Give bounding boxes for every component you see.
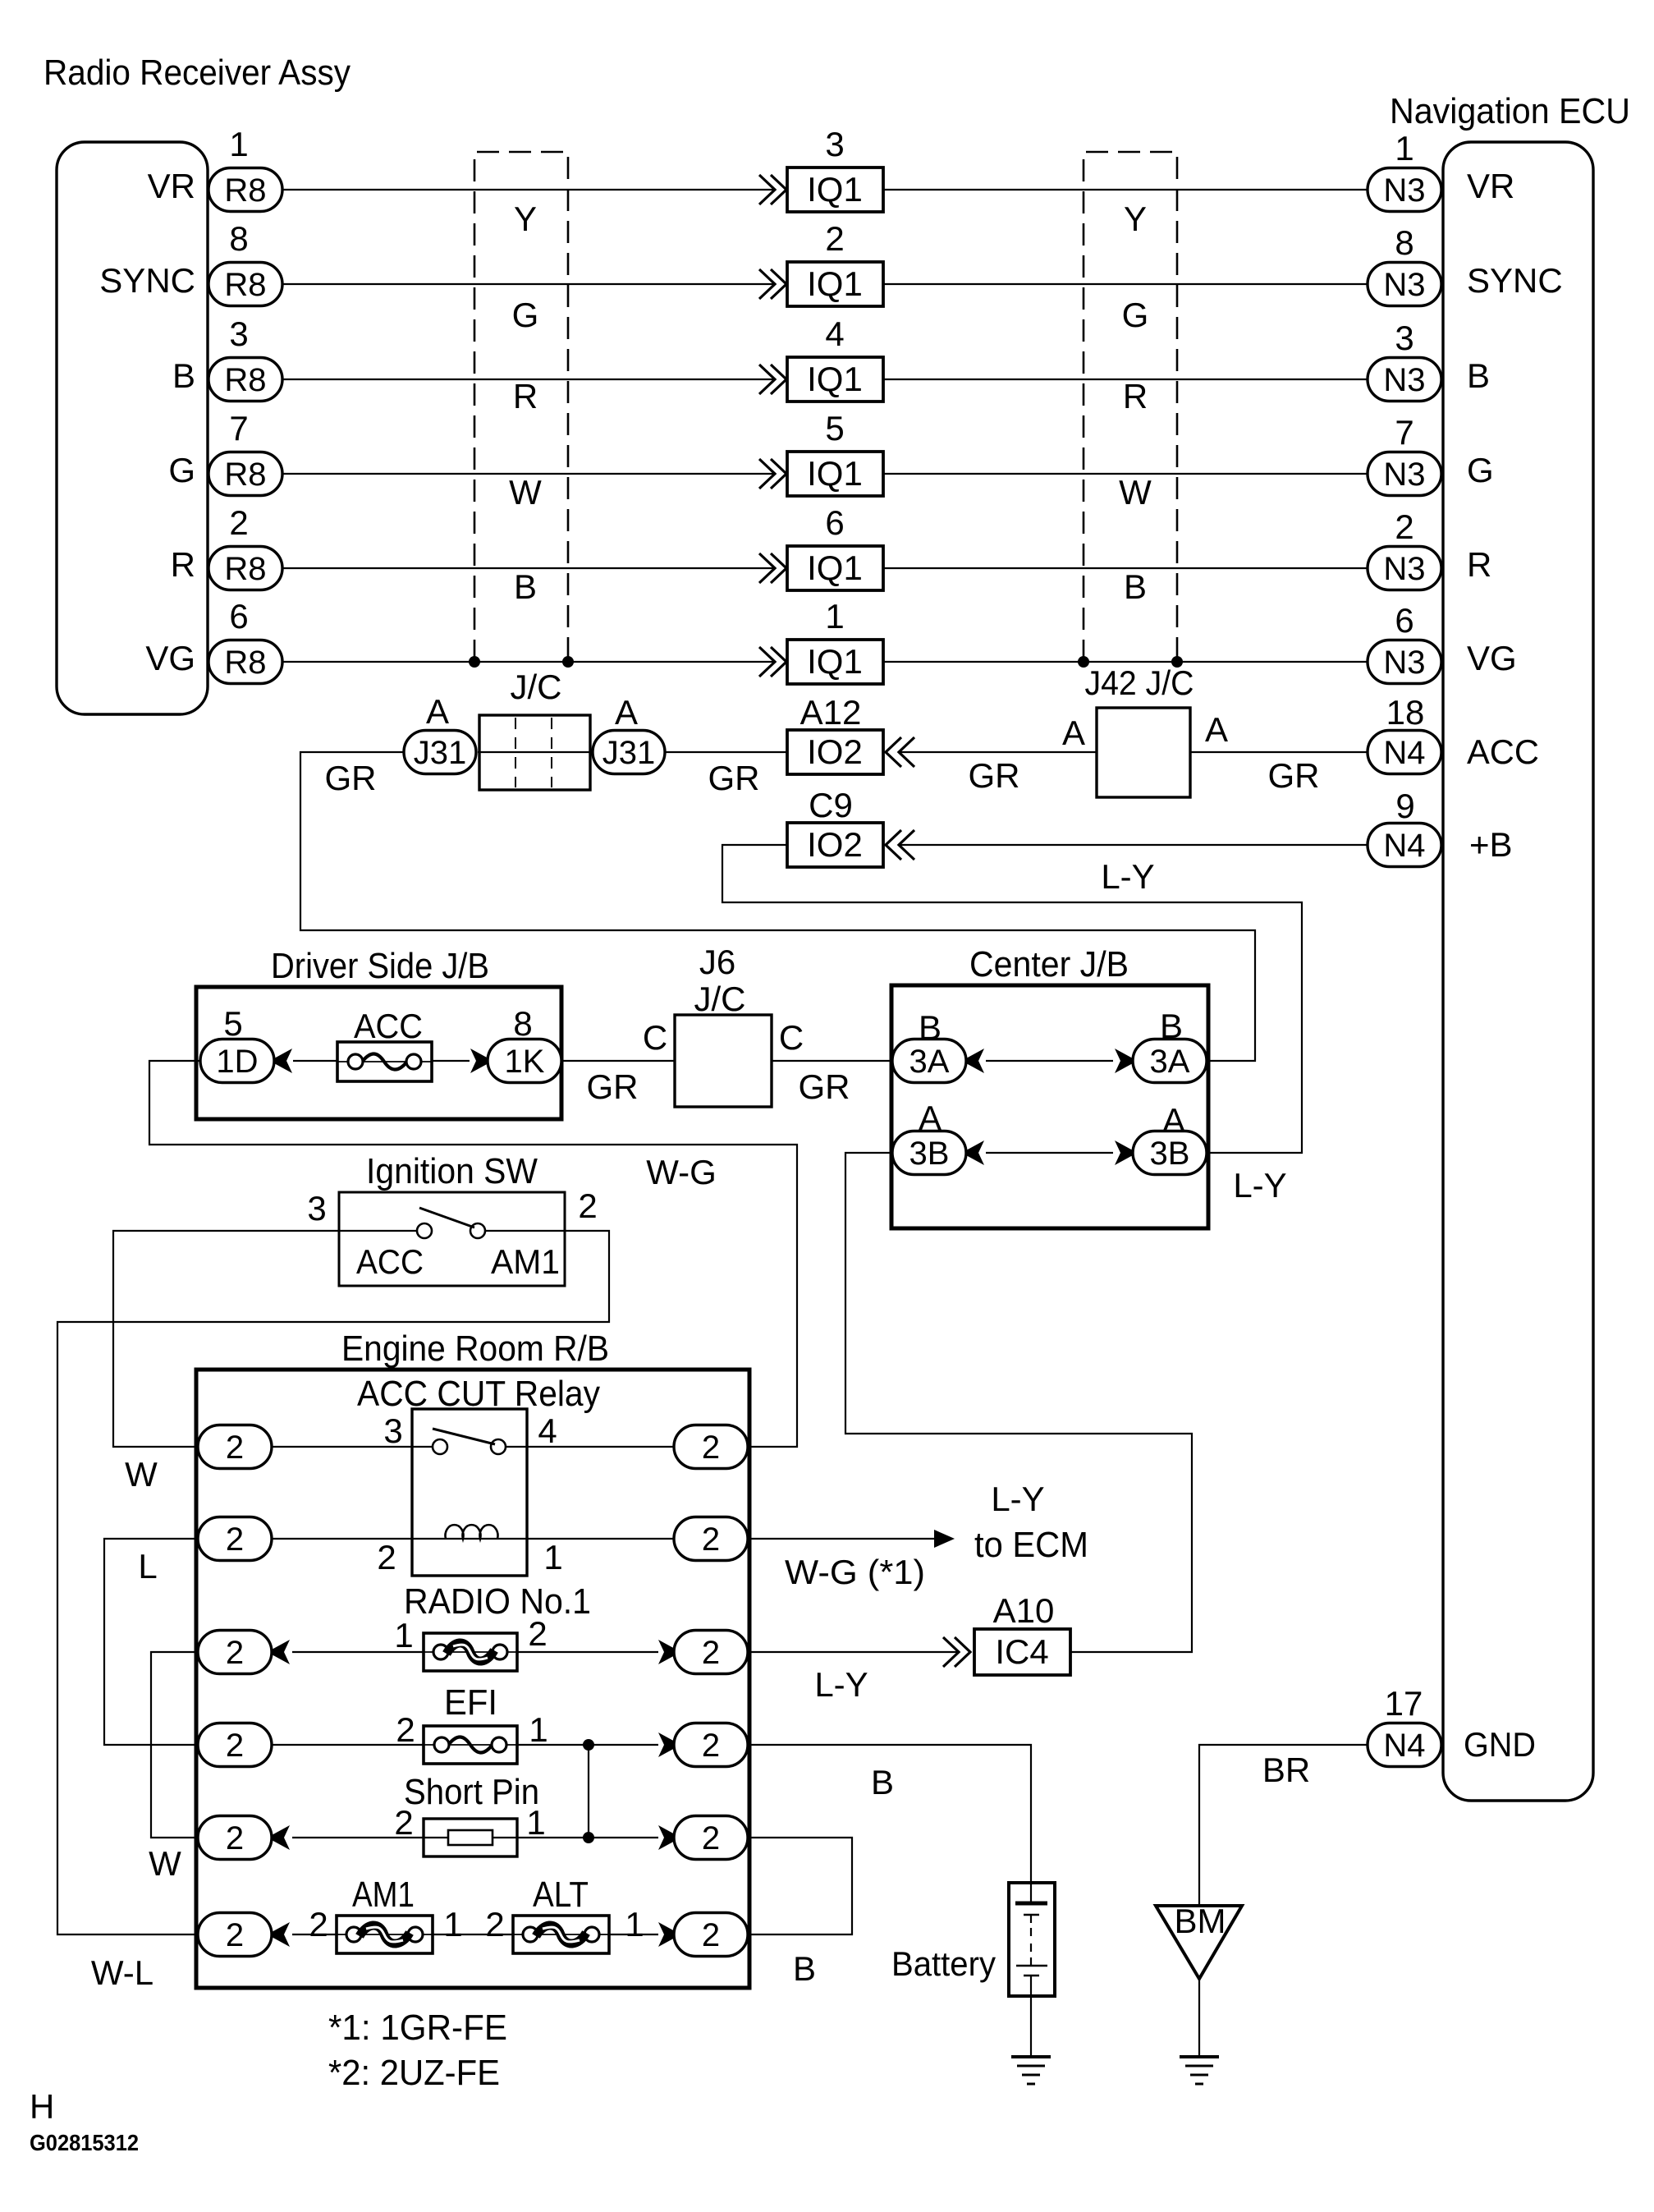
svg-text:J6: J6 bbox=[699, 943, 735, 981]
svg-text:2: 2 bbox=[702, 1917, 720, 1953]
wire L: coil row to EFI row bbox=[104, 1539, 198, 1745]
svg-text:1: 1 bbox=[526, 1803, 545, 1842]
svg-text:H: H bbox=[30, 2087, 54, 2126]
wire EFI row left segment bbox=[272, 1744, 424, 1746]
svg-text:2: 2 bbox=[1395, 507, 1413, 546]
wire B IQ1 to N3 bbox=[883, 379, 1368, 380]
connector 2 (AM1 row right) bbox=[674, 1913, 748, 1957]
svg-text:R8: R8 bbox=[224, 267, 266, 303]
svg-text:2: 2 bbox=[578, 1186, 597, 1225]
connector N3 pin 1 bbox=[1368, 168, 1441, 212]
svg-text:W: W bbox=[1119, 473, 1152, 512]
svg-text:L-Y: L-Y bbox=[1101, 857, 1154, 896]
svg-text:8: 8 bbox=[229, 219, 248, 258]
svg-text:W-G (*1): W-G (*1) bbox=[785, 1553, 925, 1591]
wire B: Short Pin row to AM1 row bbox=[748, 1838, 852, 1934]
connector 3A left bbox=[892, 1039, 966, 1083]
connector N3 pin 7 bbox=[1368, 452, 1441, 496]
svg-text:R8: R8 bbox=[224, 172, 266, 209]
connector 2 (Short Pin row left) bbox=[198, 1816, 272, 1860]
svg-text:J42 J/C: J42 J/C bbox=[1085, 663, 1194, 702]
svg-text:W-G: W-G bbox=[646, 1153, 717, 1191]
wire Short Pin row left segment bbox=[292, 1837, 424, 1838]
svg-text:IO2: IO2 bbox=[807, 732, 863, 771]
wire to ECM bbox=[748, 1538, 944, 1540]
connector arrow into Short Pin row left bbox=[272, 1825, 290, 1850]
svg-text:EFI: EFI bbox=[444, 1682, 497, 1723]
svg-text:1: 1 bbox=[529, 1710, 548, 1749]
svg-text:A10: A10 bbox=[993, 1591, 1055, 1630]
connector 2 (relay row2 left) bbox=[198, 1517, 272, 1561]
junction box J/C bbox=[479, 715, 590, 790]
svg-text:2: 2 bbox=[396, 1710, 415, 1749]
svg-text:8: 8 bbox=[1395, 223, 1413, 262]
svg-text:5: 5 bbox=[223, 1004, 242, 1043]
svg-text:1: 1 bbox=[443, 1905, 462, 1944]
svg-text:Short Pin: Short Pin bbox=[404, 1772, 539, 1812]
svg-text:3: 3 bbox=[229, 314, 248, 353]
connector 2 (RADIO row left) bbox=[198, 1631, 272, 1674]
svg-text:VR: VR bbox=[148, 167, 195, 205]
junction connector J31 right bbox=[593, 731, 665, 774]
svg-text:Y: Y bbox=[1124, 200, 1147, 238]
connector R8 pin 8 bbox=[208, 263, 282, 306]
wire relay switch row left bbox=[272, 1446, 433, 1448]
svg-text:Engine Room R/B: Engine Room R/B bbox=[341, 1329, 609, 1369]
svg-text:N3: N3 bbox=[1383, 645, 1425, 681]
connector 2 (relay row1 left) bbox=[198, 1425, 272, 1469]
svg-text:IQ1: IQ1 bbox=[807, 170, 863, 209]
connector 3B right bbox=[1133, 1131, 1207, 1175]
junction box J42 J/C bbox=[1097, 708, 1190, 797]
svg-text:R8: R8 bbox=[224, 551, 266, 587]
wire relay coil row bbox=[272, 1538, 674, 1540]
svg-text:J/C: J/C bbox=[694, 980, 746, 1018]
svg-text:2: 2 bbox=[702, 1820, 720, 1856]
wire ALT to right connector bbox=[609, 1934, 658, 1935]
svg-text:6: 6 bbox=[229, 597, 248, 636]
Navigation ECU box bbox=[1443, 142, 1593, 1801]
wire W: RADIO row to Short Pin row bbox=[151, 1652, 198, 1838]
connector N3 pin 3 bbox=[1368, 358, 1441, 402]
svg-text:1: 1 bbox=[625, 1905, 644, 1944]
fuse RADIO No.1 bbox=[424, 1633, 517, 1671]
svg-text:RADIO No.1: RADIO No.1 bbox=[404, 1581, 591, 1622]
svg-text:GR: GR bbox=[969, 756, 1020, 795]
wire R R8 to IQ1 bbox=[282, 567, 774, 569]
svg-text:2: 2 bbox=[702, 1635, 720, 1671]
guide arrow into IC4 bbox=[943, 1637, 970, 1667]
svg-text:N4: N4 bbox=[1383, 828, 1425, 864]
svg-text:1: 1 bbox=[1395, 129, 1413, 168]
svg-text:2: 2 bbox=[226, 1728, 244, 1764]
Radio Receiver Assy box bbox=[57, 142, 208, 714]
battery cell bbox=[1009, 1883, 1055, 1996]
connector arrow into EFI row right bbox=[658, 1732, 676, 1757]
junction dot Short Pin row bbox=[583, 1832, 594, 1843]
junction box J6 J/C bbox=[675, 1015, 772, 1107]
svg-text:N3: N3 bbox=[1383, 172, 1425, 209]
svg-text:ACC: ACC bbox=[356, 1242, 424, 1281]
short pin component bbox=[424, 1819, 517, 1856]
guide arrow into IQ1 bbox=[759, 459, 786, 489]
svg-text:IQ1: IQ1 bbox=[807, 264, 863, 303]
connector arrow into AM1 row left bbox=[272, 1922, 290, 1947]
svg-text:B: B bbox=[793, 1949, 816, 1988]
svg-text:2: 2 bbox=[226, 1635, 244, 1671]
connector arrow into 3A right bbox=[1115, 1049, 1133, 1073]
connector arrow into 3B right bbox=[1115, 1140, 1133, 1165]
svg-text:W: W bbox=[125, 1455, 158, 1494]
svg-text:2: 2 bbox=[394, 1803, 413, 1842]
ACC CUT relay box bbox=[412, 1409, 527, 1576]
svg-text:IQ1: IQ1 bbox=[807, 642, 863, 681]
svg-text:2: 2 bbox=[702, 1521, 720, 1558]
connector R8 pin 1 bbox=[208, 168, 282, 212]
guide arrow into IQ1 bbox=[759, 365, 786, 394]
svg-text:L-Y: L-Y bbox=[814, 1665, 868, 1704]
junction dot shield left A bbox=[469, 656, 480, 668]
svg-text:B: B bbox=[1467, 356, 1490, 395]
svg-text:N3: N3 bbox=[1383, 551, 1425, 587]
svg-text:3: 3 bbox=[307, 1189, 326, 1228]
svg-text:2: 2 bbox=[226, 1521, 244, 1558]
svg-text:J31: J31 bbox=[602, 735, 656, 771]
svg-text:C: C bbox=[643, 1018, 667, 1057]
connector 1K pin 8 bbox=[488, 1039, 561, 1083]
splice IQ1 pin 4 bbox=[787, 357, 883, 402]
svg-text:2: 2 bbox=[377, 1538, 396, 1576]
connector R8 pin 3 bbox=[208, 358, 282, 402]
junction dot shield left B bbox=[562, 656, 574, 668]
wire BR: N4 GND to BM bbox=[1199, 1745, 1368, 1906]
svg-text:2: 2 bbox=[226, 1820, 244, 1856]
svg-text:Ignition SW: Ignition SW bbox=[366, 1151, 538, 1191]
connector N4 pin 9 bbox=[1368, 824, 1441, 867]
svg-text:18: 18 bbox=[1386, 693, 1425, 732]
svg-text:2: 2 bbox=[309, 1905, 328, 1944]
svg-text:1D: 1D bbox=[216, 1044, 258, 1080]
relay switch contacts bbox=[433, 1429, 506, 1454]
svg-text:AM1: AM1 bbox=[491, 1242, 560, 1281]
svg-text:C: C bbox=[779, 1018, 804, 1057]
svg-text:J31: J31 bbox=[414, 735, 467, 771]
svg-text:ALT: ALT bbox=[533, 1875, 589, 1915]
guide arrow into IQ1 bbox=[759, 175, 786, 204]
svg-text:G02815312: G02815312 bbox=[30, 2130, 139, 2155]
svg-text:1: 1 bbox=[825, 597, 844, 636]
svg-text:2: 2 bbox=[229, 503, 248, 542]
wire VG IQ1 to N3 bbox=[883, 661, 1368, 663]
svg-text:Driver Side J/B: Driver Side J/B bbox=[271, 946, 489, 986]
wire W: ignition pin3 to relay pin3 row bbox=[113, 1231, 339, 1447]
junction dot shield right B bbox=[1171, 656, 1183, 668]
svg-text:J/C: J/C bbox=[511, 668, 562, 706]
ground (battery) bbox=[1011, 2057, 1051, 2084]
connector N3 pin 6 bbox=[1368, 640, 1441, 684]
wire VG R8 to IQ1 bbox=[282, 661, 774, 663]
svg-text:VR: VR bbox=[1467, 167, 1514, 205]
guide arrow into IQ1 bbox=[759, 553, 786, 583]
wire GR: J31 through J/C bbox=[478, 751, 787, 753]
svg-text:W-L: W-L bbox=[91, 1953, 153, 1992]
splice IQ1 pin 6 bbox=[787, 546, 883, 590]
junction connector J31 left bbox=[404, 731, 476, 774]
svg-text:Battery: Battery bbox=[891, 1944, 996, 1983]
ignition switch contacts bbox=[339, 1208, 565, 1238]
svg-text:BM: BM bbox=[1175, 1902, 1226, 1940]
svg-text:N3: N3 bbox=[1383, 457, 1425, 493]
connector 2 (RADIO row right) bbox=[674, 1631, 748, 1674]
Driver Side J/B box bbox=[196, 987, 561, 1119]
svg-text:N4: N4 bbox=[1383, 735, 1425, 771]
svg-text:AM1: AM1 bbox=[352, 1875, 415, 1915]
splice IO2 A12 bbox=[787, 730, 883, 774]
svg-text:IQ1: IQ1 bbox=[807, 454, 863, 493]
svg-text:7: 7 bbox=[1395, 413, 1413, 452]
svg-text:1: 1 bbox=[229, 125, 248, 163]
svg-text:G: G bbox=[1122, 296, 1149, 334]
wire RADIO row right segment bbox=[517, 1651, 658, 1653]
svg-text:B: B bbox=[871, 1763, 894, 1801]
wire B R8 to IQ1 bbox=[282, 379, 774, 380]
svg-text:2: 2 bbox=[702, 1430, 720, 1466]
connector 2 (EFI row right) bbox=[674, 1723, 748, 1767]
wire SYNC IQ1 to N3 bbox=[883, 283, 1368, 285]
connector R8 pin 6 bbox=[208, 640, 282, 684]
svg-text:A: A bbox=[1062, 714, 1085, 752]
connector R8 pin 7 bbox=[208, 452, 282, 496]
connector 2 (EFI row left) bbox=[198, 1723, 272, 1767]
svg-text:6: 6 bbox=[825, 503, 844, 542]
wire EFI to Short Pin junction bbox=[588, 1745, 589, 1838]
svg-text:Radio Receiver Assy: Radio Receiver Assy bbox=[44, 53, 351, 93]
connector 2 (Short Pin row right) bbox=[674, 1816, 748, 1860]
connector arrow into 1D bbox=[274, 1049, 292, 1073]
connector arrow into AM1 row right bbox=[658, 1922, 676, 1947]
connector N4 pin 18 bbox=[1368, 731, 1441, 774]
svg-text:R8: R8 bbox=[224, 645, 266, 681]
svg-text:GR: GR bbox=[1268, 756, 1320, 795]
svg-text:GND: GND bbox=[1464, 1725, 1536, 1764]
wire GR: J31-left to corner x366 bbox=[300, 752, 1255, 1061]
guide arrow into IQ1 bbox=[759, 647, 786, 677]
svg-text:B: B bbox=[514, 567, 537, 606]
connector 3A right bbox=[1133, 1039, 1207, 1083]
svg-text:2: 2 bbox=[825, 219, 844, 258]
wire AM1 row left segment bbox=[292, 1934, 337, 1935]
connector R8 pin 2 bbox=[208, 547, 282, 590]
svg-text:IO2: IO2 bbox=[807, 825, 863, 864]
svg-text:W: W bbox=[509, 473, 542, 512]
svg-text:R: R bbox=[1123, 377, 1148, 415]
fuse AM1 bbox=[337, 1916, 433, 1953]
wire GR: J6 to Center J/B 3A bbox=[772, 1060, 892, 1062]
connector 3B left bbox=[892, 1131, 966, 1175]
svg-text:Navigation ECU: Navigation ECU bbox=[1390, 91, 1630, 131]
wire W-L: ignition pin2 to AM1 fuse row bbox=[57, 1231, 609, 1934]
guide arrow out of IO2 C9 bbox=[886, 830, 914, 860]
svg-text:3: 3 bbox=[825, 125, 844, 163]
wire GR: J42 to N4 bbox=[1190, 751, 1368, 753]
wire GR: 1K to J6 bbox=[561, 1060, 675, 1062]
fuse ACC bbox=[337, 1042, 432, 1081]
shield dashed outline left bbox=[474, 152, 568, 662]
guide arrow into IQ1 bbox=[759, 269, 786, 299]
wire RADIO row left segment bbox=[292, 1651, 424, 1653]
splice IQ1 pin 1 bbox=[787, 640, 883, 684]
svg-text:2: 2 bbox=[702, 1728, 720, 1764]
wire VR R8 to IQ1 bbox=[282, 189, 774, 190]
svg-text:B: B bbox=[172, 356, 195, 395]
svg-text:R: R bbox=[171, 545, 195, 584]
wire between 3A connectors bbox=[986, 1060, 1113, 1062]
Engine Room R/B box bbox=[196, 1370, 749, 1988]
svg-text:3B: 3B bbox=[1150, 1136, 1190, 1172]
wire L-Y: N4 +B to IO2 C9 bbox=[900, 844, 1368, 846]
svg-text:A12: A12 bbox=[800, 693, 862, 732]
wire SYNC R8 to IQ1 bbox=[282, 283, 774, 285]
ground (BM) bbox=[1180, 2057, 1219, 2084]
svg-text:3B: 3B bbox=[909, 1136, 950, 1172]
splice IQ1 pin 5 bbox=[787, 452, 883, 496]
svg-text:GR: GR bbox=[587, 1067, 639, 1106]
svg-text:VG: VG bbox=[145, 639, 195, 677]
wire L-Y: RADIO row to IC4 bbox=[748, 1651, 959, 1653]
connector 2 (AM1 row left) bbox=[198, 1913, 272, 1957]
svg-text:L-Y: L-Y bbox=[1233, 1166, 1286, 1205]
svg-text:IQ1: IQ1 bbox=[807, 548, 863, 587]
splice IO2 C9 bbox=[787, 823, 883, 867]
fuse ALT bbox=[513, 1916, 609, 1953]
connector N4 pin 17 bbox=[1368, 1723, 1441, 1767]
svg-text:2: 2 bbox=[226, 1917, 244, 1953]
connector N3 pin 2 bbox=[1368, 547, 1441, 590]
shield dashed outline right bbox=[1084, 152, 1177, 662]
wire W-G: 1D to ACC CUT relay pin4 (long path) bbox=[149, 1061, 797, 1447]
svg-text:GR: GR bbox=[325, 759, 377, 797]
wire L-Y: IO2 C9 to Center J/B 3B bbox=[722, 845, 1302, 1153]
wire R IQ1 to N3 bbox=[883, 567, 1368, 569]
wire relay switch row right bbox=[506, 1446, 674, 1448]
connector 1D pin 5 bbox=[200, 1039, 274, 1083]
splice IQ1 pin 3 bbox=[787, 168, 883, 212]
svg-text:A: A bbox=[1205, 710, 1228, 749]
splice IC4 A10 bbox=[974, 1629, 1070, 1675]
relay coil bbox=[446, 1525, 498, 1539]
svg-text:A: A bbox=[426, 692, 449, 731]
svg-text:L-Y: L-Y bbox=[991, 1480, 1044, 1518]
svg-text:1: 1 bbox=[394, 1616, 413, 1654]
svg-text:IC4: IC4 bbox=[995, 1632, 1048, 1671]
connector arrow into Short Pin row right bbox=[658, 1825, 676, 1850]
svg-text:G: G bbox=[168, 451, 195, 489]
svg-text:N3: N3 bbox=[1383, 362, 1425, 398]
svg-text:N3: N3 bbox=[1383, 267, 1425, 303]
connector arrow into 3B left bbox=[966, 1140, 984, 1165]
svg-text:IQ1: IQ1 bbox=[807, 360, 863, 398]
wire B: EFI row to battery bbox=[748, 1745, 1031, 1883]
svg-text:C9: C9 bbox=[809, 786, 853, 824]
svg-text:3A: 3A bbox=[1150, 1044, 1190, 1080]
svg-text:SYNC: SYNC bbox=[99, 261, 195, 300]
svg-text:G: G bbox=[512, 296, 539, 334]
connector arrow into RADIO row right bbox=[658, 1640, 676, 1664]
junction dot EFI row bbox=[583, 1739, 594, 1751]
svg-text:R8: R8 bbox=[224, 362, 266, 398]
connector arrow into 3A left bbox=[966, 1049, 984, 1073]
wire battery to ground bbox=[1030, 1996, 1032, 2057]
guide arrow out of IO2 A12 bbox=[886, 737, 914, 767]
svg-text:ACC: ACC bbox=[354, 1007, 423, 1045]
svg-text:GR: GR bbox=[708, 759, 760, 797]
wire BM to ground bbox=[1198, 1979, 1200, 2057]
svg-text:Center J/B: Center J/B bbox=[969, 944, 1129, 984]
svg-text:Y: Y bbox=[514, 200, 537, 238]
svg-text:R: R bbox=[513, 377, 538, 415]
connector 2 (relay row1 right) bbox=[674, 1425, 748, 1469]
svg-text:3: 3 bbox=[383, 1411, 402, 1450]
connector 2 (relay row2 right) bbox=[674, 1517, 748, 1561]
svg-text:B: B bbox=[1124, 567, 1147, 606]
svg-text:4: 4 bbox=[538, 1411, 557, 1450]
Center J/B box bbox=[891, 985, 1208, 1228]
svg-text:R: R bbox=[1467, 545, 1491, 584]
svg-text:W: W bbox=[149, 1844, 181, 1883]
svg-text:4: 4 bbox=[825, 314, 844, 353]
wire 1D to ACC fuse bbox=[293, 1060, 337, 1062]
wire between AM1 and ALT fuses bbox=[433, 1934, 513, 1935]
connector arrow into 1K bbox=[470, 1049, 488, 1073]
wire ACC fuse to 1K bbox=[432, 1060, 470, 1062]
svg-text:17: 17 bbox=[1385, 1684, 1423, 1723]
svg-text:*1: 1GR-FE: *1: 1GR-FE bbox=[328, 2008, 507, 2048]
svg-text:3A: 3A bbox=[909, 1044, 950, 1080]
svg-text:+B: +B bbox=[1469, 825, 1513, 864]
fuse EFI bbox=[424, 1726, 517, 1764]
wire L-Y: 3B left to IC4 bbox=[845, 1153, 1192, 1652]
Ignition SW box bbox=[339, 1192, 565, 1286]
svg-text:N4: N4 bbox=[1383, 1728, 1425, 1764]
wire VR IQ1 to N3 bbox=[883, 189, 1368, 190]
svg-text:5: 5 bbox=[825, 409, 844, 447]
ground point BM bbox=[1156, 1902, 1242, 1979]
splice IQ1 pin 2 bbox=[787, 262, 883, 306]
svg-text:2: 2 bbox=[226, 1430, 244, 1466]
connector arrow into RADIO row left bbox=[272, 1640, 290, 1664]
svg-text:BR: BR bbox=[1262, 1751, 1310, 1789]
svg-text:ACC: ACC bbox=[1467, 732, 1539, 771]
svg-text:VG: VG bbox=[1467, 639, 1517, 677]
wire EFI row right segment bbox=[517, 1744, 658, 1746]
svg-text:6: 6 bbox=[1395, 601, 1413, 640]
svg-text:A: A bbox=[615, 693, 638, 732]
wire between 3B connectors bbox=[986, 1152, 1113, 1154]
svg-text:8: 8 bbox=[513, 1004, 532, 1043]
svg-text:2: 2 bbox=[528, 1614, 547, 1653]
wire GR: IO2 to J42 bbox=[900, 751, 1097, 753]
svg-text:2: 2 bbox=[485, 1905, 504, 1944]
connector N3 pin 8 bbox=[1368, 263, 1441, 306]
junction dot shield right A bbox=[1078, 656, 1089, 668]
svg-text:9: 9 bbox=[1395, 787, 1414, 825]
wire G R8 to IQ1 bbox=[282, 473, 774, 475]
svg-text:GR: GR bbox=[799, 1067, 850, 1106]
svg-text:1K: 1K bbox=[505, 1044, 545, 1080]
svg-text:SYNC: SYNC bbox=[1467, 261, 1563, 300]
svg-text:to ECM: to ECM bbox=[974, 1525, 1088, 1565]
svg-text:G: G bbox=[1467, 451, 1494, 489]
